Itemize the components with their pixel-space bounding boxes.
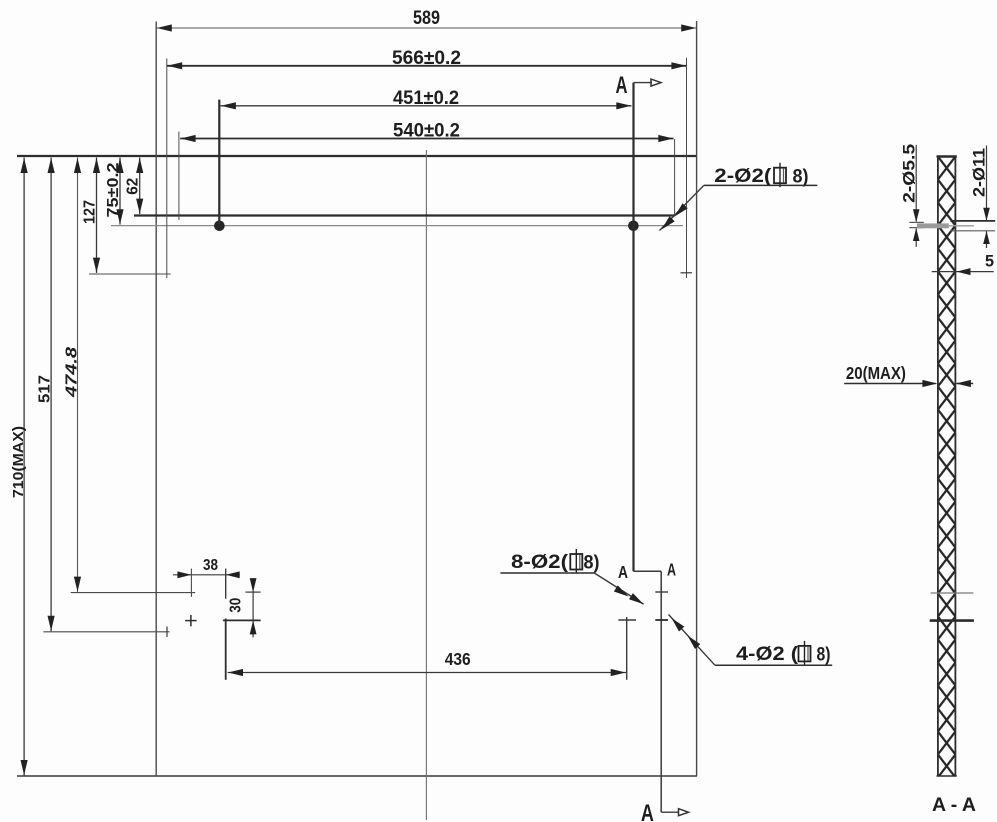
dimension line 20(MAX) — [844, 383, 935, 385]
svg-text:2-Ø11: 2-Ø11 — [970, 148, 988, 197]
slot left hole dot — [214, 221, 225, 232]
extension line 540 left — [178, 132, 180, 220]
panel top edge — [17, 155, 697, 157]
section line lower vertical — [660, 571, 662, 812]
svg-text:451±0.2: 451±0.2 — [393, 88, 459, 109]
extension line 38 right upper — [225, 569, 227, 599]
dimension 540±0.2 — [180, 138, 673, 140]
dimension line 20(MAX) right side — [957, 383, 974, 385]
svg-text:38: 38 — [203, 557, 218, 574]
svg-text:A: A — [667, 560, 676, 580]
slot cross-section gray bar — [917, 223, 949, 228]
panel left edge — [155, 22, 157, 777]
section bar with crosshatch — [938, 157, 956, 777]
tick 30 upper — [246, 591, 261, 593]
svg-text:62: 62 — [125, 178, 142, 195]
svg-text:517: 517 — [37, 375, 54, 403]
dimension 30 — [252, 578, 254, 637]
svg-text:2-Ø5.5: 2-Ø5.5 — [900, 144, 918, 203]
slot gray line extension — [949, 225, 974, 227]
dimension 62 — [139, 158, 141, 215]
slot top line — [134, 214, 675, 216]
dimension 75±0.2 — [119, 158, 121, 225]
svg-text:8): 8) — [817, 645, 831, 666]
dimension 451±0.2 — [221, 105, 632, 107]
svg-text:589: 589 — [413, 8, 440, 29]
hole center cross left — [185, 620, 196, 622]
svg-text:540±0.2: 540±0.2 — [393, 121, 460, 142]
dimension 566±0.2 — [167, 65, 687, 67]
svg-text:4-Ø2 (: 4-Ø2 ( — [736, 644, 799, 665]
section arrow top — [634, 82, 653, 84]
svg-text:5: 5 — [985, 253, 994, 271]
dimension 710(MAX) — [23, 158, 25, 776]
dimension 474.8 — [77, 158, 79, 593]
tick on 566 right extension — [681, 272, 693, 274]
slot bottom line — [111, 225, 683, 227]
extension line 540 right — [674, 139, 676, 216]
panel right edge — [696, 21, 698, 776]
leader for 2-Ø2 — [660, 185, 704, 230]
panel bottom edge — [17, 775, 697, 777]
svg-text:710(MAX): 710(MAX) — [11, 426, 27, 498]
tick 5.5 upper — [909, 221, 924, 223]
dimension 11 line — [986, 146, 988, 221]
svg-text:436: 436 — [445, 649, 471, 669]
lower hole line — [950, 230, 995, 232]
vertical centerline — [425, 150, 427, 820]
svg-text:8): 8) — [793, 167, 809, 188]
leader for 4-Ø2 — [669, 615, 715, 666]
section line A (vertical through holes) — [632, 83, 634, 572]
dimension 436 — [228, 672, 626, 674]
hole center cross right — [618, 619, 636, 621]
section arrow bottom — [661, 811, 679, 813]
reference line for 127 — [89, 273, 171, 275]
extension line 566 left — [166, 59, 168, 279]
tick 5.5 lower — [909, 227, 924, 229]
extension line 38 left — [190, 569, 192, 597]
section hole line lower — [930, 619, 974, 622]
dimension 5.5 line — [915, 145, 917, 222]
svg-text:2-Ø2(: 2-Ø2( — [714, 166, 772, 187]
dimension 5.5 lower arrow — [915, 229, 917, 247]
svg-text:8-Ø2(: 8-Ø2( — [511, 552, 569, 573]
svg-text:A: A — [616, 72, 628, 99]
reference line 30 lower — [223, 619, 261, 621]
extension line 566 right — [686, 58, 688, 278]
hole tick lower — [655, 619, 668, 621]
section hole line upper — [931, 592, 974, 594]
dimension 11 lower arrow — [986, 231, 988, 248]
hole tick upper — [655, 591, 668, 593]
dimension 5 line — [932, 271, 994, 273]
svg-text:127: 127 — [82, 200, 99, 224]
svg-text:474.8: 474.8 — [64, 347, 81, 398]
svg-text:A: A — [618, 562, 628, 582]
dimension 589 — [156, 27, 696, 29]
slot right hole dot — [628, 221, 639, 232]
svg-text:566±0.2: 566±0.2 — [392, 48, 461, 69]
svg-text:8): 8) — [584, 553, 600, 574]
tick at end of 517 reference — [166, 627, 168, 638]
dimension 127 — [96, 158, 98, 274]
upper hole line — [950, 220, 995, 222]
dimension 517 — [50, 158, 52, 632]
section line jog — [634, 570, 662, 572]
svg-text:30: 30 — [228, 598, 245, 613]
reference line for 474.8 — [71, 592, 196, 594]
svg-text:20(MAX): 20(MAX) — [846, 363, 906, 383]
svg-text:75±0.2: 75±0.2 — [105, 163, 122, 218]
extension line 38 right lower / 436 left reference — [225, 619, 227, 680]
leader for 8-Ø2 — [594, 573, 643, 604]
dimension 38 — [173, 574, 240, 576]
extension line 451 left (to hole center) — [218, 100, 220, 224]
svg-text:A - A: A - A — [932, 794, 976, 816]
reference line for 517 — [43, 631, 169, 633]
svg-text:A: A — [641, 800, 654, 822]
